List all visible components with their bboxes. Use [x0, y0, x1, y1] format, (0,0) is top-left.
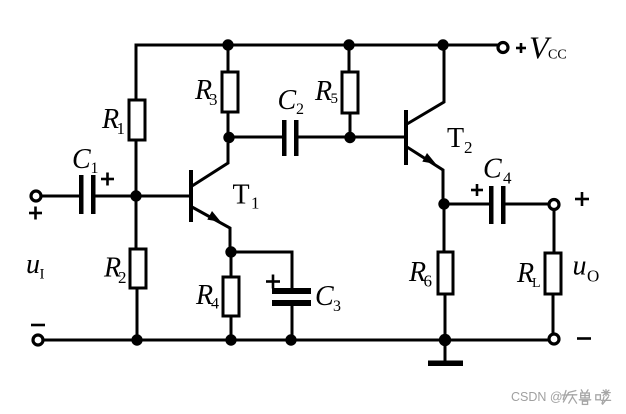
svg-text:O: O: [587, 267, 599, 286]
svg-text:CC: CC: [548, 48, 567, 63]
svg-text:3: 3: [209, 90, 218, 109]
svg-text:2: 2: [118, 268, 127, 287]
svg-text:1: 1: [117, 119, 126, 138]
svg-text:L: L: [532, 276, 541, 291]
svg-text:1: 1: [91, 160, 99, 177]
svg-text:C: C: [72, 144, 91, 175]
svg-text:4: 4: [503, 169, 512, 188]
svg-text:6: 6: [424, 272, 433, 291]
svg-text:I: I: [40, 267, 45, 283]
svg-text:u: u: [26, 249, 40, 280]
svg-text:CSDN @: CSDN @: [511, 390, 563, 404]
svg-text:C: C: [483, 154, 502, 185]
svg-text:5: 5: [331, 91, 339, 107]
svg-text:2: 2: [464, 138, 473, 157]
svg-text:T: T: [233, 180, 250, 211]
svg-text:2: 2: [296, 101, 304, 118]
svg-text:u: u: [573, 251, 587, 282]
svg-text:4: 4: [211, 296, 219, 313]
svg-text:T: T: [447, 123, 464, 154]
svg-text:C: C: [278, 85, 297, 116]
svg-text:R: R: [314, 76, 332, 107]
svg-text:C: C: [315, 281, 334, 312]
svg-text:3: 3: [333, 298, 341, 315]
svg-text:1: 1: [251, 194, 260, 213]
